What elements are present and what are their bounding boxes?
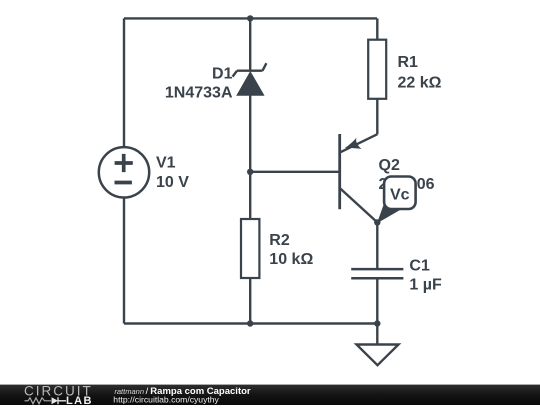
svg-text:V1: V1 [156, 155, 176, 172]
svg-text:LAB: LAB [66, 395, 93, 405]
junction C1 bottom rail [374, 320, 380, 326]
svg-text:http://circuitlab.com/cyuythy: http://circuitlab.com/cyuythy [113, 395, 219, 405]
junction Vc node [374, 219, 380, 225]
voltage source V1 [99, 147, 149, 197]
wire bottom rail [124, 322, 377, 324]
wire zener to base node [249, 95, 251, 172]
svg-text:D1: D1 [212, 65, 233, 82]
wire zener top segment [249, 18, 251, 70]
transistor Q2 PNP [340, 134, 378, 222]
logo diode [52, 397, 59, 404]
svg-text:R1: R1 [398, 54, 419, 71]
wire left rail V1 branch [123, 18, 125, 323]
wire R1 branch [376, 18, 378, 134]
resistor R1 [368, 40, 386, 99]
svg-text:C1: C1 [409, 257, 430, 274]
resistor R2 [241, 219, 259, 278]
wire base node to Q2 base [250, 171, 340, 173]
logo resistor zigzag [25, 398, 52, 404]
svg-text:1 µF: 1 µF [409, 277, 442, 294]
junction base node [247, 169, 253, 175]
wire R2 branch [249, 172, 251, 324]
wire C1 to bottom rail [376, 278, 378, 323]
svg-text:10 V: 10 V [156, 174, 189, 191]
diode D1 zener [233, 63, 267, 96]
wire Q2 output to C1 [376, 223, 378, 270]
ground [357, 324, 399, 366]
junction R2 bottom rail [247, 320, 253, 326]
footer bar [0, 383, 540, 407]
svg-text:Q2: Q2 [379, 157, 400, 174]
svg-text:22 kΩ: 22 kΩ [398, 74, 442, 91]
svg-text:Vc: Vc [390, 187, 410, 204]
svg-text:R2: R2 [269, 232, 290, 249]
node flag Vc [377, 177, 416, 224]
wire top rail V1+ to R1 [124, 17, 377, 19]
svg-text:10 kΩ: 10 kΩ [269, 251, 313, 268]
capacitor C1 [351, 269, 403, 278]
svg-text:1N4733A: 1N4733A [165, 85, 233, 102]
junction top rail / D1 [247, 15, 253, 21]
